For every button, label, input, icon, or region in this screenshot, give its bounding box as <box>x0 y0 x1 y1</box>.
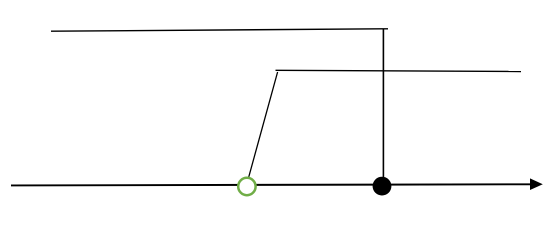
wire: second horizontal line <box>276 70 522 71</box>
wire: slanted line <box>249 72 278 178</box>
node: open circle (green) <box>238 178 255 195</box>
node: filled circle (black) <box>373 177 392 196</box>
wire: vertical line <box>382 29 384 186</box>
wire: bottom axis line <box>11 184 531 185</box>
arrowhead of axis <box>530 178 543 190</box>
wire: top horizontal line <box>51 29 388 31</box>
